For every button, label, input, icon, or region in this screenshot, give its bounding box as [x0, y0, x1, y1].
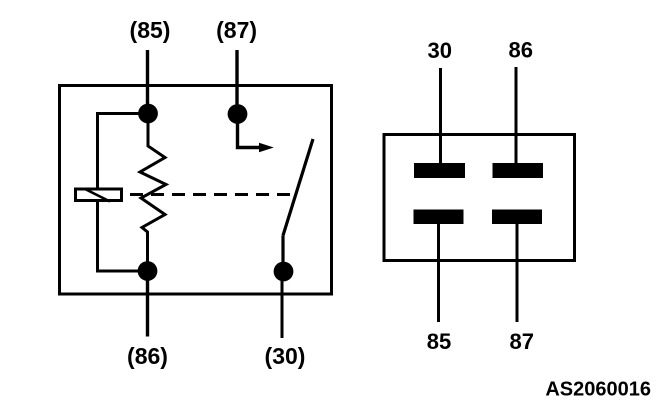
node 30: [274, 262, 294, 282]
svg-text:(30): (30): [265, 343, 306, 369]
pin 87 blade: [492, 210, 542, 225]
terminal lead (30): [281, 271, 284, 338]
relay outline box: [60, 86, 332, 295]
switch blade lower wire: [281, 236, 284, 263]
node 85: [138, 104, 158, 124]
terminal lead (86): [146, 271, 149, 337]
pin 87 lead: [516, 222, 519, 322]
coil resistance zigzag: [140, 114, 166, 272]
svg-text:AS2060016: AS2060016: [545, 379, 651, 401]
switch blade: [283, 139, 313, 236]
svg-text:87: 87: [509, 329, 533, 354]
terminal lead (85): [146, 50, 149, 113]
coil box diagonal: [86, 190, 110, 202]
svg-text:(85): (85): [130, 17, 171, 43]
svg-text:(87): (87): [216, 17, 257, 43]
node 86: [138, 261, 158, 281]
svg-text:(86): (86): [127, 343, 168, 369]
arrowhead: [259, 143, 274, 153]
pin 85 lead: [437, 222, 440, 322]
arrow from 87 node: [238, 114, 260, 148]
coil branch wire: [98, 114, 149, 272]
pin 86 lead: [515, 67, 518, 166]
svg-text:86: 86: [508, 38, 532, 63]
connector body: [384, 135, 575, 261]
svg-text:85: 85: [427, 329, 451, 354]
svg-text:30: 30: [428, 38, 452, 63]
pin 30 blade: [414, 163, 465, 178]
pin 85 blade: [414, 210, 464, 225]
dashed actuation line: [130, 193, 290, 196]
terminal lead (87): [235, 50, 238, 114]
pin 86 blade: [493, 163, 544, 178]
coil box symbol: [76, 189, 122, 201]
pin 30 lead: [439, 68, 442, 166]
node 87: [228, 104, 248, 124]
